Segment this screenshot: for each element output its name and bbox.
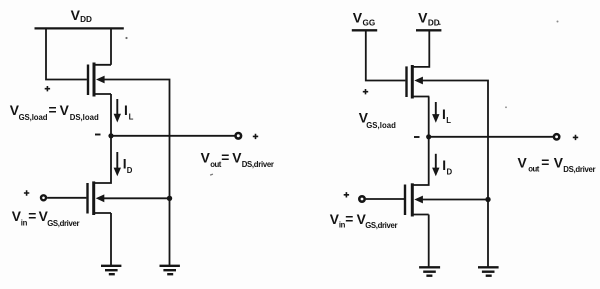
current arrow I_L (left) [116,99,118,116]
svg-text:I: I [442,107,446,122]
plus sign (input +, left) [24,190,29,195]
ground symbol (driver source, right) [419,267,440,275]
wire: rail to load gate [46,28,87,80]
nmos load M_load (left): drain stub [94,64,111,66]
V_DD supply rail (left) [35,27,124,29]
wire: input terminal to driver gate [47,197,86,199]
wire: driver source to ground (right) [428,215,430,268]
svg-text:GG: GG [363,18,376,27]
label V_in = V_GS,driver (right) [330,212,398,231]
svg-text:out: out [528,165,540,174]
svg-text:V: V [554,155,564,170]
wire: output node down to driver drain (right) [412,137,428,185]
nmos load M_load (right): channel bar [411,65,414,99]
svg-text:V: V [518,155,528,170]
output terminal circle (right) [554,134,559,139]
label I_L (right) [442,107,451,125]
svg-text:L: L [446,116,451,125]
wire: load body to ground column [104,80,170,266]
wire: output node down to driver drain [94,136,111,183]
svg-text:DS,driver: DS,driver [242,160,274,169]
nmos load M_load (right): gate bar [405,66,407,97]
svg-text:in: in [21,219,28,228]
svg-text:GS,load: GS,load [366,121,396,130]
scan speck artifact top right [557,21,559,23]
plus sign (load gate-source +) [45,86,50,91]
wire: load source to output node (right) [428,97,430,138]
wire: driver body to ground column [104,197,170,199]
svg-text:V: V [353,10,363,26]
svg-text:GS,driver: GS,driver [47,219,79,228]
nmos load M_load (left): source stub [94,93,111,95]
label V_DD (left) [71,7,92,24]
wire: load body to ground column (right) [423,81,489,268]
wire: input terminal to driver gate (right) [366,198,404,200]
output node dot (left) [108,133,113,138]
nmos load M_load (left): gate bar [87,65,89,96]
scan speck artifact near left rail [125,37,127,39]
label V_in = V_GS,driver (left) [12,209,80,228]
label V_DD (right) [418,10,440,28]
ground symbol (body column, left) [160,266,180,274]
svg-text:V: V [71,7,81,23]
junction dot (driver body / ground column, left) [167,196,172,201]
wire: driver body to ground column (right) [423,199,489,201]
wire: output node to terminal [111,135,235,137]
svg-text:=: = [49,103,57,118]
svg-text:D: D [447,167,453,176]
label V_GS,load [359,111,396,130]
minus sign (right output -) [414,136,420,138]
scan speck artifact right middle [505,106,507,108]
output node dot (right) [426,134,431,139]
nmos load M_load (right): source stub [412,96,429,98]
label V_GG [353,10,375,28]
svg-text:=: = [28,209,36,224]
svg-text:DD: DD [80,15,92,24]
wire: load source down to output node [110,94,112,136]
label I_D (left) [123,157,133,175]
ground symbol (driver source, left) [101,266,121,274]
svg-text:V: V [201,151,211,166]
nmos driver M_driver (right): body arrow [414,196,423,204]
svg-text:V: V [418,10,428,26]
V_GG supply bar [352,29,377,31]
wire: output node to terminal (right) [429,136,553,138]
junction dot (driver body / ground column, right) [485,197,490,202]
input terminal circle (right) [359,196,364,201]
current arrow I_L (right) [435,102,437,117]
output terminal circle (left) [236,133,242,139]
svg-text:V: V [60,103,70,118]
nmos driver M_driver (left): body arrow [96,194,105,202]
minus sign (left output -) [95,134,101,136]
wire: V_DD to load drain [412,30,429,67]
nmos driver M_driver (left): gate bar [86,183,88,214]
svg-text:=: = [541,155,549,170]
plus sign (load +, right) [363,89,368,94]
svg-text:DD: DD [428,18,440,27]
nmos driver M_driver (right): source stub [412,214,428,216]
scan speck artifact below V_out left [210,174,213,176]
label I_D (right) [442,158,452,176]
V_DD supply bar (right) [416,29,441,31]
plus sign (output +, left) [253,134,258,139]
wire: driver source to ground [110,213,112,266]
nmos driver M_driver (left): source stub [94,212,111,214]
wire: V_GG to load gate [366,30,406,81]
wire: load drain to rail [110,28,112,65]
svg-text:DS,driver: DS,driver [563,165,595,174]
nmos driver M_driver (right): gate bar [404,185,406,216]
plus sign (input +, right) [344,192,349,197]
svg-text:L: L [129,112,134,121]
label I_L (left) [124,103,134,121]
svg-text:GS,driver: GS,driver [365,221,397,230]
svg-text:I: I [124,103,128,118]
nmos driver M_driver (right): channel bar [411,183,414,216]
svg-text:DS,load: DS,load [70,113,99,122]
nmos load M_load (left): body arrow [96,76,105,84]
ground symbol (body column, right) [478,267,499,275]
nmos driver M_driver (left): channel bar [92,181,95,215]
svg-text:GS,load: GS,load [19,113,48,122]
nmos load M_load (left): channel bar [93,63,96,97]
svg-text:=: = [221,150,229,165]
svg-text:D: D [127,166,133,175]
svg-text:=: = [345,212,353,227]
label V_out = V_DS,driver (right) [518,155,596,174]
input terminal circle (left) [41,195,46,200]
nmos load M_load (right): body arrow [414,77,423,85]
current arrow I_D (right) [435,154,437,170]
plus sign (output +, right) [573,135,578,140]
period after V_DD right label [439,24,441,26]
label V_out = V_DS,driver (left) [201,150,274,169]
svg-text:out: out [210,160,222,169]
label V_GS,load = V_DS,load [10,103,99,122]
current arrow I_D (left) [116,152,118,170]
